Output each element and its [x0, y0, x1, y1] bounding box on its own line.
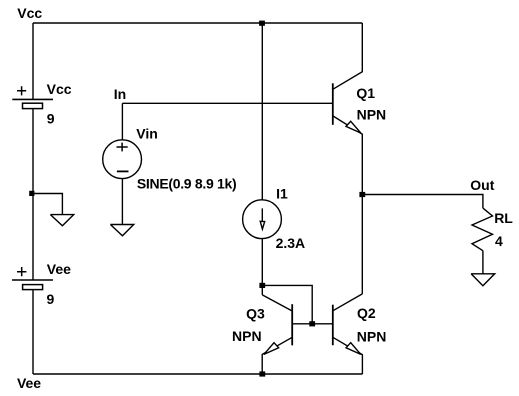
svg-text:RL: RL: [494, 210, 513, 226]
svg-text:Vcc: Vcc: [17, 5, 42, 21]
svg-text:I1: I1: [276, 185, 288, 201]
voltage source Vin: [103, 126, 237, 192]
wire top Vcc rail: [33, 22, 362, 24]
junction Vcc rail / I1: [259, 21, 265, 26]
transistor Q3 (NPN, mirrored): [232, 295, 312, 374]
wire In stub down to Vin: [121, 103, 123, 140]
wire Vcc rail down to I1: [261, 23, 263, 200]
svg-text:SINE(0.9 8.9 1k): SINE(0.9 8.9 1k): [137, 175, 236, 191]
svg-text:Vee: Vee: [17, 375, 41, 391]
wire Vin to ground: [121, 179, 123, 225]
ground (power supplies): [50, 215, 73, 226]
wire Q1 emitter to Q2 collector (Out vertical): [361, 195, 363, 294]
svg-text:Vin: Vin: [136, 126, 158, 142]
svg-text:4: 4: [495, 233, 503, 249]
wire Out to RL: [362, 195, 483, 209]
wire left rail middle (Vcc battery to Vee battery): [32, 109, 34, 280]
battery V2 Vee: [12, 261, 71, 307]
svg-text:Q2: Q2: [357, 305, 376, 321]
svg-text:Q3: Q3: [246, 305, 265, 321]
junction base branch / base wire: [309, 321, 315, 326]
junction left rail / ground branch: [29, 191, 34, 196]
wire bottom Vee rail: [33, 373, 362, 375]
svg-text:Vee: Vee: [47, 261, 71, 277]
transistor Q2 (NPN): [312, 294, 386, 374]
svg-text:NPN: NPN: [357, 328, 387, 344]
wire left rail upper (Vcc rail to battery +): [32, 23, 34, 99]
svg-text:9: 9: [47, 291, 55, 307]
svg-text:9: 9: [47, 111, 55, 127]
wire ground branch: [33, 194, 62, 215]
svg-text:Out: Out: [470, 177, 494, 193]
battery V1 Vcc: [12, 81, 71, 127]
svg-text:NPN: NPN: [232, 328, 262, 344]
svg-text:2.3A: 2.3A: [276, 235, 306, 251]
junction Q3 emitter / bottom rail: [259, 371, 265, 376]
junction I1 / base branch: [259, 283, 265, 288]
current source I1: [243, 185, 306, 251]
ground (Vin): [110, 225, 133, 236]
svg-text:Vcc: Vcc: [47, 81, 72, 97]
svg-text:In: In: [114, 86, 126, 102]
wire I1 down to Q3 collector: [261, 239, 263, 295]
wire In to Q1 base: [122, 102, 332, 104]
svg-text:Q1: Q1: [356, 85, 375, 101]
wire RL to ground: [482, 251, 484, 274]
wire base branch (I1 to Q2/Q3 bases): [262, 285, 312, 323]
svg-text:NPN: NPN: [357, 106, 387, 122]
junction Out node: [359, 192, 365, 197]
transistor Q1 (NPN): [333, 23, 386, 195]
wire left rail lower (Vee battery to bottom rail): [32, 290, 34, 374]
ground (RL): [471, 274, 495, 286]
resistor RL: [472, 208, 513, 251]
